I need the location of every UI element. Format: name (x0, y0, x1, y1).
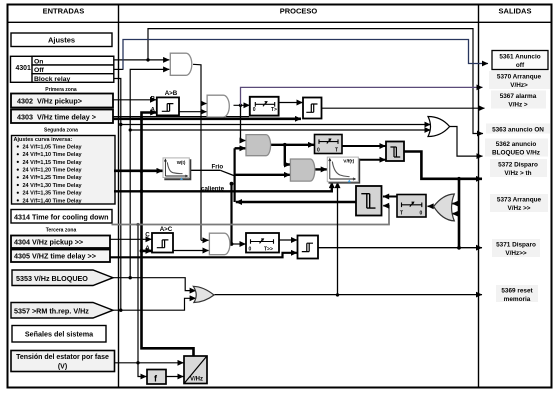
wire 4304 to C input (110, 238, 152, 240)
output 5362 anuncio BLOQUEO (485, 139, 548, 157)
trigger2 A>C block (145, 226, 173, 253)
svg-text:5369 reset: 5369 reset (501, 288, 533, 295)
wire f out to V/Hz block (166, 376, 184, 378)
or gate OR2 gray left (434, 194, 455, 221)
svg-text:5363 anuncio ON: 5363 anuncio ON (492, 127, 544, 134)
node 5372 branch (457, 177, 461, 181)
svg-text:PROCESO: PROCESO (280, 6, 318, 15)
or gate OR3 gray (193, 286, 214, 302)
svg-text:A: A (145, 245, 150, 252)
column divider right (478, 5, 480, 388)
wire tap to AND2 input1 (201, 103, 207, 105)
pentagon 5353 (12, 270, 113, 286)
svg-text:V/Hz > th: V/Hz > th (504, 170, 531, 177)
svg-text:24 V/f=1,30 Time Delay: 24 V/f=1,30 Time Delay (23, 183, 83, 189)
svg-text:Señales del sistema: Señales del sistema (25, 330, 94, 339)
svg-text:Tensión del estator por fase: Tensión del estator por fase (16, 354, 109, 361)
svg-text:A>C: A>C (160, 226, 173, 233)
svg-text:SALIDAS: SALIDAS (499, 6, 532, 15)
flip-flop FF2 gray (356, 186, 382, 216)
svg-text:5370 Arranque: 5370 Arranque (497, 74, 542, 81)
svg-text:caliente: caliente (201, 185, 225, 192)
svg-text:5372 Disparo: 5372 Disparo (498, 162, 538, 169)
wire AND1 input2 from block vertical (130, 69, 169, 277)
wire block line to OR1 input1 (121, 124, 431, 126)
svg-text:4303 V/Hz time delay >: 4303 V/Hz time delay > (17, 112, 96, 121)
node y130 junction (129, 128, 132, 131)
wire W(t) out Frio switch (191, 169, 221, 171)
wire Block relay down (114, 79, 121, 311)
wire stub OR2 input2 (452, 213, 459, 215)
svg-text:24 V/f=1,20 Time Delay: 24 V/f=1,20 Time Delay (23, 168, 83, 174)
node bus A>C (140, 249, 144, 253)
svg-text:Ajustes: Ajustes (48, 36, 75, 45)
trigger4 block (298, 236, 319, 259)
svg-text:24 V/f=1,25 Time Delay: 24 V/f=1,25 Time Delay (23, 175, 83, 181)
wire purple to 5370 (241, 87, 483, 105)
svg-text:off: off (516, 62, 525, 69)
node 5353 junction (129, 276, 132, 279)
wire timer2 out to FF1 (342, 145, 386, 147)
wire AND2 out to timer1 (234, 104, 250, 106)
wire thick to trigger1 bottom (113, 118, 301, 121)
box 4304 (11, 236, 110, 249)
wire gray 4314 to FF2 reset (112, 206, 390, 225)
svg-text:A>B: A>B (165, 90, 178, 97)
output 5371 Disparo (492, 239, 540, 257)
svg-text:24 V/f=1,15 Time Delay: 24 V/f=1,15 Time Delay (23, 160, 83, 166)
wire caliente branch vertical down (230, 184, 232, 244)
wire 5357 to OR3 input2 (113, 298, 196, 310)
wire vertical 5357 up gray junction (137, 225, 139, 363)
trigger1 A>B block (151, 90, 180, 116)
or gate OR1 white (428, 117, 450, 137)
output 5361 Anuncio off (492, 51, 548, 70)
svg-text:5353 V/Hz BLOQUEO: 5353 V/Hz BLOQUEO (16, 274, 88, 283)
wire On row to AND1 input1 (114, 59, 170, 61)
svg-text:4304 V/Hz pickup >>: 4304 V/Hz pickup >> (14, 238, 83, 247)
svg-text:(V): (V) (58, 364, 67, 371)
svg-text:4305 V/HZ time delay >>: 4305 V/HZ time delay >> (14, 252, 96, 261)
wire navy to 5361 Anuncio off (123, 40, 488, 70)
svg-text:24 V/f=1,05 Time Delay: 24 V/f=1,05 Time Delay (23, 144, 83, 150)
output 5370 Arranque (489, 71, 550, 89)
wire gateB out to V/f(t) (315, 168, 327, 170)
box Ajustes curva inversa list (12, 136, 116, 205)
box Ajustes (11, 33, 112, 47)
wire to gateB input2 (235, 174, 291, 176)
svg-text:4301: 4301 (16, 65, 31, 72)
svg-text:0: 0 (420, 211, 423, 217)
and gate A gray (246, 135, 271, 156)
wire 4305 to trigger4 lower (110, 253, 297, 257)
switch blade Frio (220, 170, 234, 176)
svg-text:5361 Anuncio: 5361 Anuncio (499, 54, 540, 61)
wire A>C A input from bus (142, 250, 152, 253)
timer3 block 0 T>> (246, 233, 279, 253)
wire V/f(t) out to FF1 (360, 159, 386, 161)
svg-text:24 V/f=1,40 Time Delay: 24 V/f=1,40 Time Delay (23, 198, 83, 204)
wire FF1 out to 5372 Disparo th (404, 152, 482, 179)
flip-flop FF1 gray (386, 142, 404, 162)
svg-text:5367 alarma: 5367 alarma (500, 93, 537, 100)
node bus caliente (140, 189, 144, 193)
column divider left (118, 5, 120, 388)
svg-text:0: 0 (253, 107, 256, 113)
svg-text:24 V/f=1,10 Time Delay: 24 V/f=1,10 Time Delay (23, 152, 83, 158)
svg-text:memoria: memoria (504, 296, 531, 303)
wire vertical right (458, 179, 461, 248)
svg-text:ENTRADAS: ENTRADAS (43, 6, 85, 15)
box 4303 (11, 110, 113, 124)
node reset branch (336, 293, 339, 296)
box 4305 (11, 250, 110, 263)
node gateA branch (283, 143, 287, 147)
box 4302 (11, 94, 113, 108)
svg-text:Off: Off (34, 67, 45, 74)
wire 4302 to B input (113, 99, 156, 101)
timer1 block 0 T> (250, 97, 279, 116)
node bus y171 (140, 169, 144, 173)
svg-text:Segunda zona: Segunda zona (44, 128, 78, 134)
wire OR1 out to 5362 (450, 127, 483, 157)
svg-text:24 V/f=1,35 Time Delay: 24 V/f=1,35 Time Delay (23, 191, 83, 197)
wire y130 line to OR1 input2 (130, 129, 430, 131)
and gate AND1 (170, 53, 192, 75)
output 5373 Arranque (490, 194, 548, 212)
svg-text:On: On (34, 58, 43, 65)
wire reset up to V/f(t) bottom (337, 182, 339, 295)
wire timer1 out to trigger3 (279, 102, 303, 104)
wire FF2 out left to switch (236, 201, 356, 203)
wire trigger3 out to 5367 alarma (322, 107, 485, 109)
wire OR2 out to timer4 (428, 205, 434, 207)
svg-text:BLOQUEO V/Hz: BLOQUEO V/Hz (492, 150, 540, 157)
wire AND1 output down (193, 64, 201, 240)
block W(t) curve (163, 158, 190, 180)
svg-text:A: A (151, 106, 156, 113)
wire Off row stub (114, 68, 124, 70)
box Tension del estator (11, 351, 115, 372)
node AND3 out (230, 242, 234, 246)
svg-text:V/Hz: V/Hz (190, 377, 203, 383)
wire top line to 5363 anuncio ON (148, 29, 483, 134)
svg-text:5371 Disparo: 5371 Disparo (496, 242, 536, 249)
svg-text:T>: T> (271, 107, 277, 113)
wire thick W(t) input (114, 170, 163, 173)
block f (147, 370, 166, 385)
wire stub OR2 input1 (452, 203, 459, 205)
wire to AND3 input1 (201, 239, 209, 241)
and gate AND2 (207, 95, 229, 117)
svg-text:V/Hz >: V/Hz > (508, 102, 528, 109)
node caliente dot (230, 182, 234, 186)
svg-text:T: T (400, 211, 403, 217)
node junction On/top line (146, 58, 149, 61)
wire gateA out to timer2 (271, 144, 315, 146)
svg-text:B: B (151, 95, 156, 102)
wire thick V/Hz bus (142, 113, 194, 357)
node AND2 out purple (239, 104, 242, 107)
output 5367 alarma (491, 91, 546, 109)
and gate AND3 (209, 233, 230, 255)
wire 4303 setting to timer1 (113, 116, 249, 118)
box Señales del sistema (12, 326, 106, 343)
block V/Hz divider (184, 356, 207, 384)
node Tension branch (136, 361, 139, 364)
output 5372 Disparo th (490, 159, 547, 177)
wire branch to gateB input1 (285, 145, 290, 165)
svg-text:Primera zona: Primera zona (45, 87, 77, 93)
node bus y119 (140, 117, 144, 121)
node 5357 junction (119, 309, 122, 312)
svg-text:0: 0 (249, 247, 252, 253)
svg-text:5362 anuncio: 5362 anuncio (496, 141, 537, 148)
svg-text:C: C (145, 232, 150, 239)
node 5371 junction (457, 246, 461, 250)
and gate B gray (290, 159, 314, 181)
wire AND3 out to timer3 (230, 243, 246, 245)
svg-text:4314 Time for cooling down: 4314 Time for cooling down (14, 212, 109, 221)
wire to gateA input2 (235, 147, 246, 149)
wire thick caliente to V/f(t) bottom (114, 182, 332, 191)
svg-text:Tercera zona: Tercera zona (46, 228, 77, 234)
svg-text:Frio: Frio (212, 164, 224, 171)
svg-text:V/Hz >>: V/Hz >> (507, 205, 530, 212)
wire timer3 out to trigger4 (279, 239, 297, 241)
wire OR3 out to 5369 reset (215, 294, 483, 296)
svg-text:Block relay: Block relay (34, 76, 70, 83)
wire trigger1 out to AND2 input2 (179, 111, 207, 113)
timer2 gray block 0 T (315, 135, 343, 154)
wire Tension to V/Hz block (115, 362, 184, 364)
timer4 gray block T 0 (397, 195, 426, 218)
wire trigger4 out to 5371 (318, 247, 482, 249)
svg-text:V/f(t): V/f(t) (343, 158, 354, 164)
node Block/OR1 line (119, 123, 122, 126)
wire timer4 out to FF2 (383, 196, 397, 198)
svg-text:Ajustes curva inversa:: Ajustes curva inversa: (14, 137, 73, 143)
svg-text:V/Hz>>: V/Hz>> (505, 250, 527, 257)
output 5369 reset memoria (496, 285, 538, 303)
svg-text:5373 Arranque: 5373 Arranque (497, 197, 542, 204)
wire A>C out to AND3 input2 (173, 250, 209, 252)
svg-text:W(t): W(t) (177, 160, 186, 165)
box 4301 On/Off/Block relay (11, 56, 114, 83)
wire switch common vertical up (234, 148, 236, 202)
wire enable down to gateA input1 (241, 105, 246, 140)
pentagon 5357 (11, 303, 113, 319)
wire 5353 to OR3 input1 (113, 278, 196, 291)
block V/f(t) curve (327, 157, 359, 183)
svg-text:0: 0 (317, 148, 320, 154)
wire down to f block (138, 363, 147, 377)
svg-text:4302 V/Hz pickup>: 4302 V/Hz pickup> (17, 97, 82, 106)
trigger3 block (303, 98, 322, 119)
header divider (8, 21, 552, 23)
output 5363 anuncio ON (486, 124, 550, 134)
svg-text:V/Hz>: V/Hz> (510, 82, 528, 89)
svg-text:5357 >RM th.rep. V/Hz: 5357 >RM th.rep. V/Hz (14, 307, 89, 316)
svg-text:T: T (335, 148, 338, 154)
box 4314 (11, 210, 112, 224)
svg-text:T>>: T>> (264, 247, 273, 253)
